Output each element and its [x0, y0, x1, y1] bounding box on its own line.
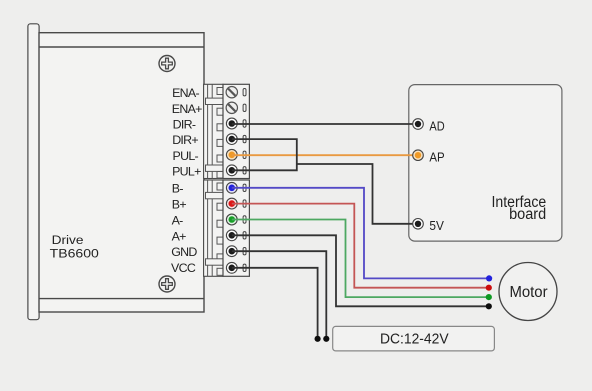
terminal VCC — [226, 262, 237, 273]
wire GND to supply — [232, 251, 326, 339]
screw top — [159, 56, 175, 72]
drive mounting tab — [28, 24, 39, 320]
pin bars column — [243, 89, 246, 272]
screw bottom — [159, 276, 175, 292]
connector wing bars group 1 — [206, 98, 224, 171]
terminal B+ — [226, 198, 237, 209]
svg-text:B-: B- — [172, 182, 184, 196]
terminal strip block group 2 — [223, 180, 249, 276]
wire PUL- to AP (orange) — [232, 154, 418, 156]
screw terminal ENA- (unused) — [226, 87, 237, 98]
terminal A- — [226, 214, 237, 225]
svg-text:DIR+: DIR+ — [172, 133, 198, 147]
wire DIR- to AD — [232, 123, 418, 125]
svg-text:AP: AP — [429, 150, 444, 165]
terminal DIR+ — [226, 134, 237, 145]
svg-text:B+: B+ — [172, 197, 187, 211]
label Interface board — [492, 194, 547, 223]
svg-text:ENA+: ENA+ — [172, 102, 202, 116]
wire VCC to supply — [232, 268, 318, 339]
wire jumper branch to 5V — [297, 164, 418, 224]
terminal 5V — [413, 219, 424, 230]
terminal AP — [413, 150, 424, 161]
terminal A+ — [226, 230, 237, 241]
label Drive TB6600 — [50, 233, 99, 260]
svg-text:Drive: Drive — [52, 233, 84, 247]
svg-text:TB6600: TB6600 — [50, 246, 99, 260]
interface board — [409, 85, 562, 242]
svg-text:DC:12-42V: DC:12-42V — [380, 332, 449, 348]
svg-text:AD: AD — [429, 118, 444, 133]
connector wing bars group 2 — [206, 192, 224, 265]
terminal strip block group 1 — [223, 84, 249, 178]
drive TB6600 body — [39, 33, 204, 312]
supply dot VCC — [315, 336, 321, 342]
terminal DIR- — [226, 118, 237, 129]
svg-text:PUL+: PUL+ — [172, 164, 201, 178]
terminal PUL+ — [226, 165, 237, 176]
power supply DC:12-42V — [333, 326, 495, 351]
supply dot GND — [323, 336, 329, 342]
svg-text:A-: A- — [172, 214, 184, 228]
terminal AD — [413, 119, 424, 130]
pin labels column — [171, 86, 202, 275]
motor lead dot black — [486, 303, 492, 309]
connector teeth group 1 — [217, 88, 223, 179]
terminal B- — [226, 182, 237, 193]
wire B- blue to motor — [232, 188, 489, 279]
connector rail group 2 — [204, 180, 223, 276]
motor lead dot blue — [486, 275, 492, 281]
svg-text:PUL-: PUL- — [173, 149, 199, 163]
svg-text:ENA-: ENA- — [172, 86, 199, 100]
wire jumper DIR+ / PUL+ — [232, 139, 297, 170]
wire A+ black to motor — [232, 235, 489, 306]
svg-text:GND: GND — [171, 245, 197, 259]
connector rail group 1 — [204, 84, 223, 178]
svg-text:board: board — [509, 206, 546, 223]
motor M1 — [499, 263, 557, 321]
motor lead dot green — [486, 294, 492, 300]
wire B+ red to motor — [232, 204, 489, 288]
svg-text:Motor: Motor — [509, 284, 547, 301]
wire A- green to motor — [232, 220, 489, 298]
motor lead dot red — [486, 285, 492, 291]
svg-text:VCC: VCC — [171, 261, 196, 275]
terminal PUL- — [226, 149, 237, 160]
svg-text:5V: 5V — [429, 218, 444, 233]
screw terminal ENA+ (unused) — [226, 102, 237, 113]
connector teeth group 2 — [217, 183, 223, 275]
svg-text:DIR-: DIR- — [173, 118, 196, 132]
svg-text:A+: A+ — [172, 230, 187, 244]
terminal GND — [226, 246, 237, 257]
